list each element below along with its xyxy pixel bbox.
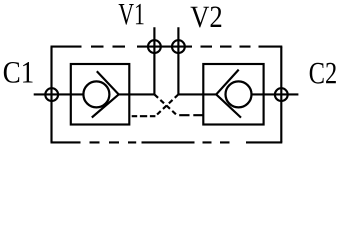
port V1 circle (148, 40, 161, 53)
left check valve poppet ball (83, 81, 109, 107)
pilot line from V1: diagonal to right valve (dashed) (154, 94, 177, 115)
right check valve poppet ball (226, 81, 252, 107)
pilot line from V1: horizontal run to right valve box (dashed) (179, 114, 203, 116)
left check valve box (71, 64, 130, 125)
port V2 circle (172, 40, 185, 53)
label C2 (310, 63, 336, 84)
wire: main line C1 side (port stub through left valve to poppet) (34, 93, 84, 95)
label V2 (190, 6, 221, 27)
outer valve-body envelope: right edge (280, 47, 282, 143)
wire: main line from left seat apex to V1 junction (119, 93, 155, 95)
wire: main line right poppet to C2 stub (252, 93, 299, 95)
right check valve box (203, 64, 263, 125)
pilot line from V2: diagonal to left valve (dashed) (155, 94, 178, 116)
port C2 circle (275, 88, 288, 101)
label C1 (4, 62, 33, 83)
outer envelope top edge (dashed) (51, 46, 283, 48)
port C1 circle (45, 88, 58, 101)
outer envelope bottom edge (dashed) (51, 141, 283, 143)
outer valve-body envelope: left edge (50, 47, 52, 143)
label V1 (119, 4, 144, 25)
left check valve seat (92, 71, 119, 117)
wire: V1 riser (153, 27, 155, 94)
wire: V2 riser (177, 27, 179, 94)
right check valve seat (216, 70, 241, 118)
pilot line from V2: horizontal run to left valve box (dashed) (132, 115, 156, 117)
wire: main line from V2 junction to right seat apex (178, 93, 216, 95)
